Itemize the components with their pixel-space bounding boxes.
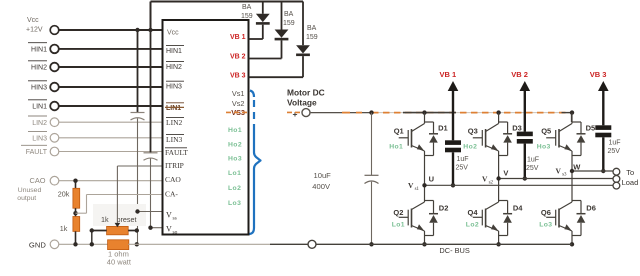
svg-text:40 watt: 40 watt: [107, 258, 132, 267]
diode DB1 BA159: [256, 14, 270, 22]
svg-text:Ho3: Ho3: [228, 156, 242, 163]
transistor Q2: [424, 185, 426, 202]
capacitor C-dec1 (Vcc decoupling): [131, 112, 145, 114]
transistor Q3: [496, 110, 500, 114]
svg-text:V: V: [166, 211, 172, 220]
transistor Q1: [422, 110, 426, 114]
svg-text:To: To: [626, 168, 634, 177]
svg-text:Ho1: Ho1: [389, 143, 403, 150]
diode D3: [499, 121, 508, 123]
wire HIN3 to IC: [59, 86, 163, 88]
resistor 1k: [73, 217, 80, 232]
svg-text:s2: s2: [489, 181, 494, 186]
wire FAULT to IC: [59, 151, 163, 153]
svg-text:LIN2: LIN2: [32, 120, 47, 127]
wire LIN3 to IC: [59, 137, 163, 139]
svg-text:V: V: [166, 225, 172, 234]
svg-text:VB 3: VB 3: [230, 72, 246, 79]
svg-text:DC- BUS: DC- BUS: [439, 246, 469, 255]
svg-text:Lo2: Lo2: [228, 185, 241, 192]
svg-text:s1: s1: [415, 187, 420, 192]
wire CA- feedback: [76, 212, 87, 214]
svg-text:159: 159: [283, 20, 295, 27]
diode D1: [425, 121, 434, 123]
wire phase U: [425, 184, 613, 186]
wire pot wiper to ITRIP: [115, 223, 121, 227]
svg-text:D4: D4: [513, 204, 523, 213]
svg-text:Q2: Q2: [393, 208, 403, 217]
svg-text:Q4: Q4: [468, 208, 479, 217]
terminal To Load: [613, 168, 620, 175]
capacitor 10uF 400V: [369, 110, 373, 114]
capacitor CB2 1uF 25V: [517, 132, 533, 137]
capacitor CB1 1uF 25V: [445, 140, 461, 145]
diode D6: [572, 200, 581, 202]
svg-text:Load: Load: [622, 178, 639, 187]
wire rail end segment: [562, 112, 572, 114]
wire 1k to GND: [75, 231, 77, 244]
svg-text:25V: 25V: [526, 165, 539, 172]
svg-text:1k: 1k: [101, 215, 109, 224]
wire phase W: [572, 170, 613, 172]
svg-text:V: V: [503, 169, 508, 178]
svg-text:HIN3: HIN3: [166, 84, 182, 91]
svg-text:D1: D1: [438, 124, 448, 133]
svg-text:D5: D5: [586, 124, 596, 133]
svg-text:25V: 25V: [456, 164, 469, 171]
svg-text:HIN3: HIN3: [31, 85, 47, 92]
svg-text:V: V: [482, 175, 488, 184]
diode D4: [499, 200, 508, 202]
svg-text:W: W: [573, 163, 581, 172]
svg-text:Lo3: Lo3: [228, 200, 241, 207]
svg-text:VB 2: VB 2: [230, 53, 246, 60]
svg-text:Lo1: Lo1: [392, 222, 405, 229]
svg-text:BA: BA: [284, 11, 294, 18]
wire DB3 top: [302, 2, 304, 46]
wire phase V: [499, 178, 613, 180]
svg-text:1uF: 1uF: [457, 156, 469, 163]
svg-text:FAULT: FAULT: [26, 149, 48, 156]
wire Vss to branch A: [138, 211, 163, 213]
wire CB1 to U: [452, 152, 454, 185]
svg-text:FAULT: FAULT: [165, 148, 188, 157]
transistor Q4: [498, 179, 500, 203]
wire HIN1 to IC: [59, 48, 163, 50]
svg-text:10uF: 10uF: [314, 171, 332, 180]
wire DB1 to VB1: [262, 25, 264, 39]
wire CAO node column: [75, 181, 77, 189]
wire CAO to IC: [59, 180, 163, 182]
svg-text:LIN3: LIN3: [32, 135, 47, 142]
transistor Q6: [571, 171, 573, 202]
svg-text:LIN3: LIN3: [166, 135, 182, 144]
svg-text:Q1: Q1: [394, 127, 404, 136]
op-amp U1 IC gate driver box: [163, 20, 249, 235]
svg-text:Ho3: Ho3: [537, 143, 551, 150]
svg-text:Q5: Q5: [541, 127, 551, 136]
svg-text:1k: 1k: [60, 224, 68, 233]
svg-text:Q6: Q6: [541, 208, 551, 217]
wire Vcc branch A x=137.5: [137, 30, 139, 113]
wire Vcc branch B x=150.5: [150, 30, 152, 153]
svg-text:159: 159: [306, 34, 318, 41]
svg-text:Vcc: Vcc: [167, 30, 179, 37]
svg-text:D3: D3: [512, 124, 522, 133]
svg-text:BA: BA: [307, 25, 317, 32]
svg-text:V: V: [408, 181, 414, 190]
svg-text:VB 2: VB 2: [511, 70, 528, 79]
svg-text:CAO: CAO: [165, 175, 181, 184]
wire HIN2 to IC: [59, 66, 163, 68]
svg-text:Ho2: Ho2: [463, 143, 477, 150]
svg-text:preset: preset: [117, 215, 137, 224]
wire pot left lead: [90, 230, 107, 232]
wire DB3 to VB3: [302, 56, 304, 77]
svg-text:ITRIP: ITRIP: [165, 161, 184, 170]
resistor 1 ohm 40 watt (shunt): [108, 240, 129, 250]
wire GND to DC- interconnect: [128, 243, 270, 245]
svg-text:Ho2: Ho2: [228, 141, 242, 148]
capacitor C-dec2 (Vcc decoupling): [144, 152, 158, 154]
svg-text:Vcc: Vcc: [27, 17, 39, 24]
wire LIN1 to IC: [59, 105, 163, 107]
svg-text:Vs1: Vs1: [232, 89, 245, 98]
wire DB2 to VB2: [281, 40, 283, 58]
svg-text:159: 159: [241, 13, 253, 20]
node Vcc junction dots: [135, 28, 139, 32]
wire DC- bus: [308, 240, 316, 248]
svg-text:so: so: [173, 230, 178, 236]
node output group blue brace: [250, 128, 261, 234]
svg-text:CA-: CA-: [165, 190, 178, 199]
transistor Q5: [570, 110, 574, 114]
svg-text:CAO: CAO: [29, 176, 45, 185]
svg-text:D2: D2: [439, 204, 449, 213]
svg-text:400V: 400V: [312, 182, 331, 191]
svg-text:Lo3: Lo3: [539, 222, 552, 229]
svg-text:D6: D6: [586, 204, 596, 213]
wire rail drop to HB3: [571, 113, 573, 122]
wire Vso to branch B: [151, 227, 163, 229]
svg-text:25V: 25V: [608, 148, 621, 155]
svg-text:VB 3: VB 3: [590, 70, 607, 79]
svg-text:LIN2: LIN2: [166, 118, 182, 127]
svg-text:U: U: [429, 174, 434, 183]
svg-text:1uF: 1uF: [609, 140, 621, 147]
svg-text:Voltage: Voltage: [287, 98, 317, 108]
resistor 20k: [73, 188, 80, 208]
wire DB1 top: [262, 2, 264, 14]
wire top feed to bootstrap diodes: [150, 2, 152, 31]
wire pot right lead: [128, 230, 137, 232]
label 1k preset background: [93, 204, 146, 226]
svg-text:20k: 20k: [58, 190, 70, 199]
svg-text:Q3: Q3: [468, 127, 478, 136]
diode D2: [425, 200, 434, 202]
svg-text:LIN1: LIN1: [32, 104, 47, 111]
wire CB3 to W: [602, 137, 604, 171]
svg-text:ss: ss: [173, 216, 177, 222]
wire 20k-1k junction: [75, 208, 77, 216]
diode D5: [572, 121, 581, 123]
svg-text:Motor DC: Motor DC: [287, 88, 325, 98]
svg-text:Lo2: Lo2: [466, 222, 479, 229]
svg-text:VB 1: VB 1: [230, 34, 246, 41]
wire LIN2 to IC: [59, 121, 163, 123]
svg-text:+12V: +12V: [26, 27, 43, 34]
svg-text:HIN2: HIN2: [31, 65, 47, 72]
svg-text:V: V: [556, 167, 562, 176]
svg-text:HIN2: HIN2: [166, 64, 182, 71]
svg-text:BA: BA: [242, 4, 252, 11]
svg-text:+: +: [293, 109, 298, 119]
diode DB3 BA159: [296, 45, 310, 53]
svg-text:1uF: 1uF: [527, 157, 539, 164]
svg-text:VB 1: VB 1: [440, 70, 457, 79]
wire CB2 to V: [524, 144, 526, 179]
wire DB2 top: [281, 2, 283, 30]
potentiometer 1k preset: [107, 226, 129, 234]
svg-text:Lo1: Lo1: [228, 170, 241, 177]
svg-text:LIN1: LIN1: [166, 105, 181, 112]
wire +DC rail (orange dashed): [287, 111, 300, 113]
node output group blue dashed highlight: [250, 91, 254, 98]
svg-text:HIN1: HIN1: [31, 47, 47, 54]
wire GND: [59, 243, 108, 245]
svg-text:s3: s3: [562, 173, 567, 178]
svg-text:HIN1: HIN1: [166, 48, 182, 55]
svg-text:output: output: [17, 195, 36, 202]
svg-text:Unused: Unused: [18, 187, 42, 194]
svg-text:GND: GND: [29, 240, 46, 249]
capacitor CB3 1uF 25V: [595, 125, 611, 130]
diode DB2 BA159: [275, 30, 289, 38]
svg-text:Ho1: Ho1: [228, 127, 242, 134]
